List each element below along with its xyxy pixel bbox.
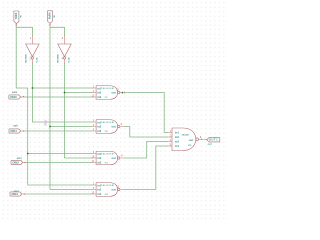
gate4 output pin	[120, 189, 125, 191]
pin L2	[21, 130, 25, 132]
wire A vertical from connector	[16, 25, 92, 185]
wire D0	[24, 96, 92, 98]
wire gate2 output to big gate pin2	[125, 127, 168, 138]
pin L3	[23, 162, 26, 164]
gate1 body 74LS10	[96, 86, 118, 100]
wire D1	[25, 130, 92, 132]
svg-text:DAT3: DAT3	[14, 190, 20, 193]
L2 texts	[11, 125, 20, 133]
svg-text:in2: in2	[97, 187, 101, 191]
svg-text:DIN2: DIN2	[13, 160, 20, 164]
svg-text:in2: in2	[97, 90, 101, 94]
connector L4 box	[10, 192, 22, 196]
svg-text:74LS04N: 74LS04N	[57, 54, 60, 64]
svg-text:in3: in3	[97, 192, 101, 196]
gate3 bubble	[118, 157, 120, 159]
big gate inner text	[175, 130, 193, 148]
wire gate3 output to big gate pin3	[125, 142, 168, 159]
junction dots	[27, 87, 124, 154]
wire /B to gate1 pin2	[65, 92, 92, 94]
gate4 input pins	[92, 184, 96, 186]
junction A gate3	[27, 153, 29, 155]
pin end diamonds	[15, 24, 202, 195]
diamond L4	[24, 193, 26, 195]
svg-text:in3: in3	[97, 160, 101, 164]
svg-text:Y1: Y1	[105, 97, 109, 99]
wire /A to gate1 pin1	[32, 87, 92, 89]
svg-text:INPA: INPA	[14, 13, 18, 19]
wire D2	[26, 162, 92, 164]
svg-text:in2: in2	[97, 124, 101, 128]
gate3 inner text	[97, 152, 116, 165]
svg-text:Y3: Y3	[105, 162, 109, 164]
L4 texts	[12, 190, 20, 196]
big gate body 74LS20	[172, 128, 196, 151]
connector L1 box	[9, 95, 21, 99]
pin connector B	[49, 23, 51, 25]
svg-text:out: out	[189, 138, 193, 142]
svg-text:Y2: Y2	[105, 131, 109, 133]
svg-text:N$14: N$14	[45, 120, 47, 126]
gate2 body	[96, 120, 118, 134]
connector B box	[48, 11, 53, 24]
svg-text:out: out	[111, 124, 115, 128]
pin inverter1 input pin1	[31, 36, 33, 44]
junction /B gate1	[64, 92, 66, 94]
diamond L3	[24, 162, 26, 164]
diamond L2	[23, 130, 25, 132]
pin connector A	[15, 23, 17, 25]
svg-text:DIN1: DIN1	[11, 129, 18, 133]
svg-text:IC1A: IC1A	[36, 57, 39, 62]
inverter IC1A bubble	[31, 57, 33, 59]
svg-text:INPB: INPB	[48, 13, 52, 20]
svg-text:in3: in3	[97, 95, 101, 99]
gate1 output pin	[120, 92, 122, 94]
gate3 body	[96, 151, 118, 165]
gate1 bubble	[118, 91, 120, 93]
junction gate1 out	[122, 92, 124, 94]
OUT texts	[208, 138, 219, 146]
red pin numbers	[30, 37, 202, 195]
big gate output pin to OUT box	[198, 138, 206, 140]
wire gate4 output to big gate pin4	[125, 146, 168, 190]
magenta net segment marker	[42, 121, 48, 123]
gate3 input pins	[92, 153, 96, 155]
wire A to gate U2C pin	[28, 153, 92, 155]
svg-text:in2: in2	[175, 135, 179, 139]
wire A branch to inverter IC1A input	[16, 27, 32, 35]
svg-text:out: out	[111, 187, 115, 191]
big gate input pins	[168, 132, 173, 134]
pin inverter2 output pin4	[64, 59, 66, 64]
svg-text:OUT1: OUT1	[209, 138, 218, 142]
svg-text:in3: in3	[175, 139, 179, 143]
diamond connector B	[49, 24, 51, 26]
junction B gate2	[49, 126, 51, 128]
gate1 inner text	[10, 86, 218, 196]
L3 texts	[13, 157, 23, 164]
gate4 inner text	[97, 183, 116, 196]
connector L2 box	[9, 129, 21, 133]
L1 texts	[10, 91, 18, 99]
inverter IC1A triangle	[26, 44, 40, 57]
connector L3 box	[11, 160, 23, 164]
big gate bubble	[196, 138, 199, 141]
inverter IC1B triangle	[58, 44, 72, 57]
inverter IC1B bubble	[63, 57, 65, 59]
svg-text:DIN0: DIN0	[10, 95, 17, 99]
wire B to gate2 pin2	[50, 126, 92, 128]
connector A box	[14, 11, 19, 24]
diamond L1	[23, 96, 25, 98]
gate2 input pins	[92, 121, 96, 123]
pin inverter1 output pin2	[31, 59, 33, 64]
net A wires	[16, 25, 167, 194]
pin inverter2 input pin3	[64, 36, 66, 44]
svg-text:in4: in4	[175, 144, 179, 148]
net /A wires from inverter IC1A output	[32, 64, 92, 122]
gate2 bubble	[118, 125, 120, 127]
pins red	[16, 23, 207, 194]
net B wires	[50, 25, 92, 189]
gate1 input pins	[92, 87, 96, 89]
symbol outlines	[9, 11, 220, 196]
teal labels	[14, 13, 70, 64]
net /B wires from inverter IC1B output	[65, 64, 92, 158]
svg-text:in3: in3	[97, 129, 101, 133]
pin L4	[22, 193, 26, 195]
svg-text:74LS04N: 74LS04N	[24, 54, 27, 64]
diamond OUT	[201, 138, 203, 140]
gate4 bubble	[118, 188, 120, 190]
gate3 output pin	[120, 157, 125, 159]
svg-text:Y4: Y4	[105, 193, 109, 196]
wire B branch to inverter IC1B input	[50, 27, 65, 35]
svg-text:74LS20: 74LS20	[182, 134, 190, 137]
svg-text:out: out	[111, 90, 115, 94]
gate2 output pin	[120, 126, 125, 128]
svg-text:IC1B: IC1B	[69, 57, 71, 62]
svg-text:DAT0: DAT0	[12, 91, 18, 94]
diamond connector A	[15, 24, 17, 26]
wire D3	[25, 193, 92, 195]
junction /A gate1	[32, 87, 34, 89]
gate4 body	[96, 183, 118, 197]
wire gate1 output to big gate pin1	[124, 93, 167, 133]
svg-text:DAT1: DAT1	[13, 125, 19, 128]
svg-text:out: out	[111, 156, 115, 160]
connector OUT box	[207, 138, 220, 142]
pin L1	[21, 96, 25, 98]
svg-text:in1: in1	[175, 130, 179, 134]
gate2 inner text	[97, 120, 116, 133]
svg-text:in2: in2	[97, 156, 101, 160]
svg-text:DAT2: DAT2	[17, 157, 23, 160]
